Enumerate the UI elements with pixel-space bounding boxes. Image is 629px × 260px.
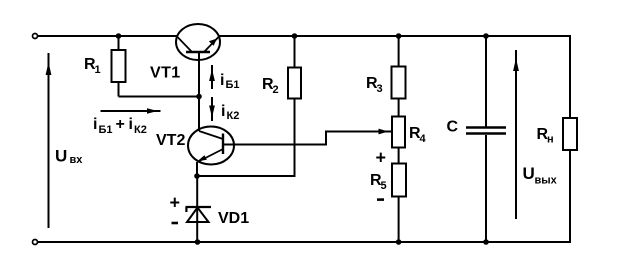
svg-text:VT2: VT2: [156, 132, 185, 149]
label R4: [409, 125, 427, 145]
svg-text:5: 5: [381, 180, 387, 192]
label R2: [262, 76, 279, 96]
svg-text:i: i: [221, 103, 225, 120]
label iB1+iK2: [93, 116, 147, 136]
Uvyx arrow (output voltage, pointing up): [513, 50, 519, 219]
input terminal top-left: [33, 34, 38, 39]
transistor VT1: [176, 24, 220, 60]
label C: [447, 119, 459, 136]
wire VT2 emitter lead down: [196, 162, 198, 176]
wire VT1 base lead down to VT2 collector: [198, 52, 200, 131]
current arrow iB1 (pointing up): [209, 65, 215, 89]
label iK2: [221, 103, 239, 122]
resistor R1: [112, 36, 126, 97]
svg-text:н: н: [547, 134, 554, 146]
svg-text:VT1: VT1: [150, 65, 181, 82]
potentiometer R4: [392, 99, 405, 148]
wire VT2 emitter to R2 bottom: [197, 99, 295, 177]
label Uvyx: [523, 164, 558, 187]
label plus R5: [376, 148, 387, 168]
svg-text:вых: вых: [535, 175, 558, 187]
svg-text:3: 3: [377, 83, 383, 95]
svg-text:i: i: [129, 116, 133, 133]
svg-text:Б1: Б1: [226, 79, 240, 91]
junction dot R1 top rail: [116, 33, 122, 39]
junction dot C top rail: [483, 33, 489, 39]
svg-text:1: 1: [95, 64, 101, 76]
label plus VD1: [170, 193, 181, 213]
svg-text:VD1: VD1: [218, 210, 249, 227]
junction dot R3 top rail: [396, 33, 402, 39]
junction dot node base VT1 / collector VT2: [196, 94, 202, 100]
wire VT2 base to divider (with step): [223, 129, 391, 145]
svg-text:4: 4: [420, 133, 427, 145]
junction dot C bottom rail: [483, 239, 489, 245]
label minus VD1: [172, 222, 179, 225]
svg-text:2: 2: [273, 84, 279, 96]
junction dot VT2 emitter node: [194, 173, 200, 179]
capacitor C: [466, 36, 506, 242]
svg-text:+: +: [170, 193, 181, 213]
label VD1: [218, 210, 249, 227]
input terminal bottom-left: [33, 240, 38, 245]
resistor R5: [392, 148, 406, 243]
svg-text:+: +: [116, 116, 125, 133]
wire right side vertical upper (to Rn): [569, 35, 571, 118]
label Rn: [537, 126, 554, 146]
label minus R5: [377, 198, 384, 201]
resistor R3: [392, 36, 406, 99]
svg-text:Б1: Б1: [99, 124, 113, 136]
junction dot R2 top rail: [292, 33, 298, 39]
label VT1: [150, 65, 181, 82]
wire R1 bottom to VT1 base node: [119, 96, 200, 98]
load resistor Rn: [563, 118, 577, 150]
wire top rail left (terminal to VT1 collector): [38, 35, 177, 37]
wire top rail right (VT1 emitter to right corner): [219, 35, 570, 37]
svg-text:U: U: [523, 164, 535, 183]
current arrow iB1+iK2 (pointing right): [101, 108, 161, 114]
svg-text:C: C: [447, 119, 459, 136]
label iB1: [220, 72, 240, 91]
junction dot VD1 bottom rail: [195, 239, 201, 245]
zener diode VD1: [186, 176, 212, 242]
transistor VT2: [188, 127, 234, 165]
svg-text:вх: вх: [70, 154, 84, 166]
label R5: [370, 172, 387, 192]
wire bottom rail: [38, 241, 571, 243]
Uvx arrow (input voltage, pointing up): [46, 53, 52, 228]
wire right side vertical lower (Rn to bottom rail): [569, 150, 571, 243]
resistor R2: [288, 36, 301, 99]
svg-text:U: U: [55, 147, 67, 166]
svg-text:К2: К2: [227, 110, 240, 122]
svg-text:+: +: [376, 148, 387, 168]
svg-text:i: i: [220, 72, 224, 89]
svg-text:К2: К2: [134, 124, 147, 136]
svg-text:i: i: [93, 116, 97, 133]
label VT2: [156, 132, 185, 149]
label Uvx: [55, 147, 83, 167]
label R3: [366, 75, 383, 95]
current arrow iK2 (pointing down): [209, 97, 215, 121]
junction dot R5 bottom rail: [396, 239, 402, 245]
label R1: [84, 56, 101, 76]
